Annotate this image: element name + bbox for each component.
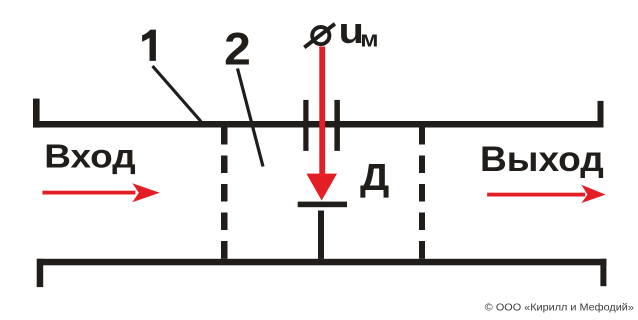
svg-text:Выход: Выход — [480, 139, 604, 179]
svg-text:© ООО «Кирилл и Мефодий»: © ООО «Кирилл и Мефодий» — [485, 302, 634, 314]
bottom-left end tick — [37, 259, 44, 287]
input arrowhead (red) — [132, 183, 160, 202]
modulation signal line (red) — [319, 47, 325, 176]
coupling capacitor left plate — [303, 100, 308, 151]
svg-text:м: м — [360, 28, 378, 53]
right dashed section boundary — [419, 127, 425, 259]
top-left end tick — [33, 99, 40, 128]
svg-text:Вход: Вход — [44, 139, 135, 176]
output arrow shaft (red) — [487, 193, 585, 197]
output arrowhead (red) — [581, 185, 605, 203]
top-right end tick — [598, 101, 604, 128]
leader line 2 — [238, 69, 264, 167]
modulation arrowhead (red) — [306, 174, 337, 201]
leader line 1 — [153, 66, 202, 122]
diameter symbol circle — [312, 27, 329, 44]
left dashed section boundary — [221, 127, 228, 259]
label 1 — [142, 30, 156, 61]
diode cathode bar — [298, 202, 347, 208]
diode stem wire — [318, 211, 324, 259]
svg-text:Д: Д — [360, 156, 389, 198]
bottom-right end tick — [600, 259, 606, 286]
waveguide top wall (wire) — [33, 121, 603, 128]
svg-text:2: 2 — [224, 23, 251, 74]
coupling capacitor right plate — [334, 100, 340, 151]
waveguide bottom wall (wire) — [37, 259, 607, 266]
diameter symbol slash — [304, 24, 335, 48]
input arrow shaft (red) — [42, 191, 135, 195]
